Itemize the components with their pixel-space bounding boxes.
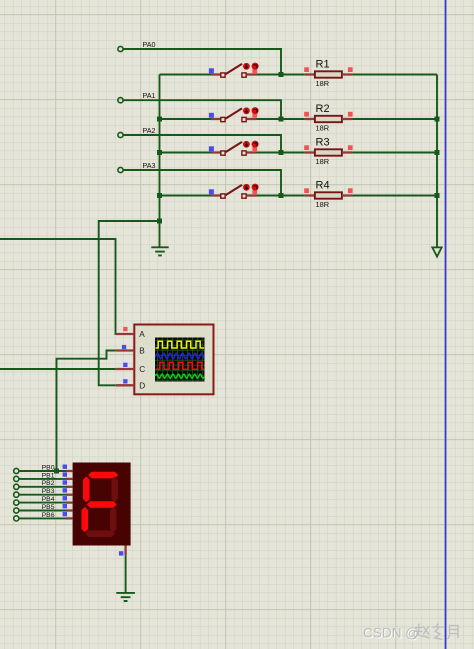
logic state indicators (red) at R2 [304, 112, 352, 117]
switch SW1 (push button) [160, 63, 282, 78]
svg-text:18R: 18R [316, 79, 330, 88]
terminal PA1 [118, 91, 156, 103]
svg-text:C: C [139, 365, 145, 374]
svg-text:A: A [139, 330, 145, 339]
resistor R4 18R [281, 180, 352, 210]
junction node SW4/R4/PA3 [279, 193, 284, 198]
junction left bus y=195.5 [157, 193, 162, 198]
junction left bus y=152.5 [157, 150, 162, 155]
resistor R2 18R [281, 103, 352, 133]
7-seg segment c [110, 507, 117, 533]
resistor R3 18R [281, 137, 352, 167]
7-seg segment e [82, 507, 89, 533]
wire R1 to right bus [352, 74, 437, 76]
7-seg segment d [85, 530, 115, 537]
svg-text:PA3: PA3 [143, 161, 156, 170]
logic state indicator (blue) at PB0 [63, 465, 67, 469]
wire PB2 to display [19, 486, 73, 488]
ground (switch common) [151, 247, 168, 255]
7-seg segment f [83, 476, 90, 502]
junction node SW1/R1/PA0 [279, 72, 284, 77]
oscilloscope pin C [116, 365, 146, 374]
junction node SW3/R3/PA2 [279, 150, 284, 155]
watermark CSDN @zhaoxuanyue [363, 624, 458, 642]
ground (display) [116, 593, 135, 601]
arrow terminal at right bus bottom [432, 247, 441, 256]
junction right bus y=195.5 [435, 193, 440, 198]
junction right bus y=119.0 [435, 117, 440, 122]
svg-text:PA1: PA1 [143, 91, 156, 100]
switch SW2 (push button) [160, 107, 282, 122]
7-seg segment a [88, 472, 118, 479]
svg-text:D: D [139, 382, 145, 391]
logic state indicator (blue) at PB3 [63, 488, 67, 492]
oscilloscope pin A [116, 330, 146, 339]
oscilloscope pin D [116, 382, 146, 391]
logic state indicators at scope pins [122, 327, 128, 384]
switch SW4 (push button) [160, 184, 282, 199]
svg-text:PA2: PA2 [143, 126, 156, 135]
terminal PA2 [118, 126, 156, 138]
wire right bus [436, 75, 438, 248]
wire scope pin B to display PB0 net [57, 351, 116, 472]
terminal PA3 [118, 161, 156, 173]
logic state indicator (blue) at SW4 [209, 189, 214, 194]
junction node SW2/R2/PA1 [279, 117, 284, 122]
wire PA3 to switch/resistor node [123, 170, 281, 196]
resistor R1 18R [281, 59, 352, 89]
svg-text:R4: R4 [316, 180, 330, 192]
logic state indicator (blue) at SW2 [209, 113, 214, 118]
logic state indicators (red) at R1 [304, 67, 352, 72]
logic state indicators (red) at R3 [304, 145, 352, 150]
svg-text:R3: R3 [316, 137, 330, 149]
logic state indicator (blue) at SW3 [209, 146, 214, 151]
logic state indicator (blue) at SW1 [209, 68, 214, 73]
junction PB0 / scope B net [54, 469, 59, 474]
svg-text:B: B [139, 347, 145, 356]
wire PB1 to display [19, 478, 73, 480]
junction left bus tap to scope D [157, 219, 162, 224]
op oscilloscope body [134, 325, 213, 395]
wire PA0 to switch/resistor node [123, 49, 281, 75]
logic state indicators (red) at R4 [304, 188, 352, 193]
wire PB4 to display [19, 502, 73, 504]
logic state indicator (blue) at PB4 [63, 496, 67, 500]
7-segment display body [73, 463, 131, 546]
junction left bus y=119.0 [157, 117, 162, 122]
terminal PB6 [14, 512, 55, 521]
wire PA2 to switch/resistor node [123, 135, 281, 153]
svg-text:R2: R2 [316, 103, 330, 115]
terminal PB1 [14, 472, 55, 481]
7-seg segment g [87, 501, 117, 508]
svg-text:18R: 18R [316, 200, 330, 209]
wire left edge to scope pin A [0, 239, 116, 334]
terminal PB4 [14, 496, 55, 505]
terminal PB2 [14, 480, 55, 489]
switch SW3 (push button) [160, 141, 282, 156]
wire R4 to right bus [352, 195, 437, 197]
svg-text:18R: 18R [316, 157, 330, 166]
7-seg segment b [111, 476, 118, 502]
wire R3 to right bus [352, 152, 437, 154]
wire PB5 to display [19, 510, 73, 512]
terminal PB0 [14, 464, 55, 473]
oscilloscope pin B [116, 347, 146, 356]
logic state indicator (blue) at PB6 [63, 512, 67, 516]
logic state indicator (blue) at PB5 [63, 504, 67, 508]
svg-text:CSDN @: CSDN @ [363, 626, 419, 641]
wire PB3 to display [19, 494, 73, 496]
wire R2 to right bus [352, 118, 437, 120]
wire left edge to scope pin C [0, 368, 116, 370]
logic state indicator (blue) at PB1 [63, 472, 67, 476]
wire PB0 to display [19, 470, 73, 472]
svg-text:PA0: PA0 [143, 40, 156, 49]
junction right bus y=152.5 [435, 150, 440, 155]
terminal PA0 [118, 40, 156, 52]
svg-text:18R: 18R [316, 124, 330, 133]
oscilloscope screen [155, 338, 205, 382]
wire PB6 to display [19, 517, 73, 519]
logic state indicator (blue) at display common [119, 551, 123, 555]
terminal PB3 [14, 488, 55, 497]
display common pin [124, 546, 126, 556]
svg-text:R1: R1 [316, 59, 330, 71]
wire PA1 to switch/resistor node [123, 100, 281, 119]
wire bus tap to scope pin D [99, 221, 160, 385]
terminal PB5 [14, 504, 55, 513]
logic state indicator (blue) at PB2 [63, 480, 67, 484]
wire left common bus [159, 75, 161, 248]
wire display to ground [125, 555, 127, 593]
